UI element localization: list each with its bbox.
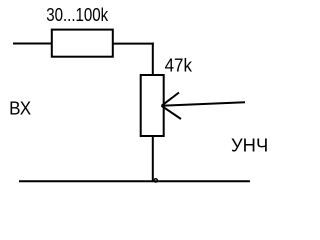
resistor R1 (30...100k) bbox=[52, 30, 113, 57]
potentiometer R2 wiper arrow to УНЧ output bbox=[162, 93, 246, 120]
potentiometer R2 body (47k) bbox=[141, 75, 164, 136]
svg-text:ВХ: ВХ bbox=[9, 98, 32, 119]
wire node A down to potentiometer R2 bbox=[152, 43, 154, 76]
wire R1 to node A bbox=[112, 43, 154, 45]
wire R2 bottom to ground rail bbox=[152, 135, 154, 181]
svg-text:30...100k: 30...100k bbox=[46, 4, 109, 25]
ground rail (common wire) bbox=[19, 180, 250, 182]
junction node dot on rail bbox=[154, 179, 157, 182]
wire input left to R1 bbox=[13, 43, 54, 45]
svg-text:УНЧ: УНЧ bbox=[231, 134, 268, 155]
svg-text:47k: 47k bbox=[165, 54, 193, 75]
